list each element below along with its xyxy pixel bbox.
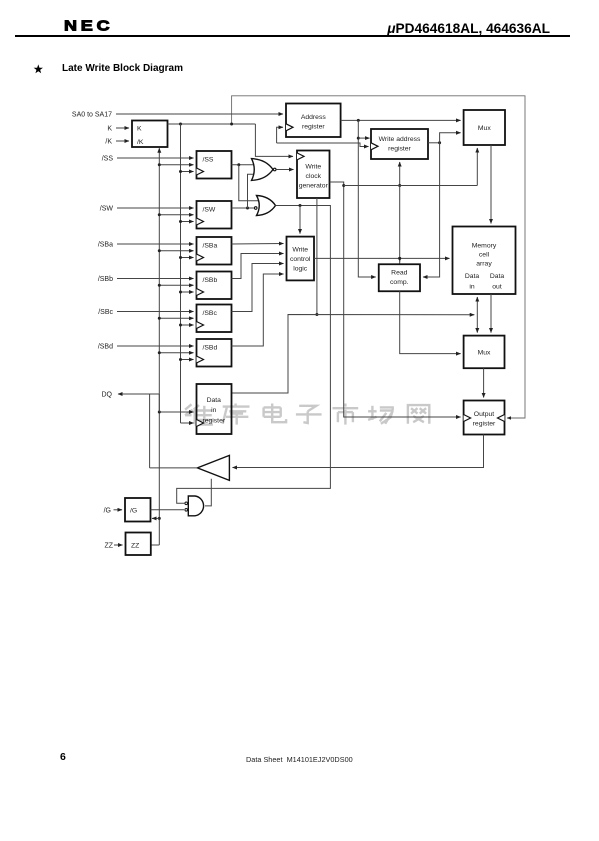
svg-text:register: register — [388, 146, 411, 153]
svg-text:array: array — [476, 261, 492, 268]
svg-text:/SS: /SS — [102, 156, 114, 163]
svg-text:Data: Data — [465, 273, 480, 280]
svg-text:ZZ: ZZ — [104, 543, 113, 550]
svg-text:/K: /K — [137, 139, 144, 146]
svg-text:/SBc: /SBc — [98, 309, 113, 316]
svg-text:/SW: /SW — [203, 206, 216, 213]
svg-text:/SBd: /SBd — [203, 344, 218, 351]
svg-text:comp.: comp. — [390, 279, 409, 286]
svg-text:/SW: /SW — [100, 206, 114, 213]
svg-text:Data: Data — [207, 397, 222, 404]
svg-text:Mux: Mux — [478, 125, 491, 132]
svg-text:DQ: DQ — [102, 392, 113, 399]
svg-text:Memory: Memory — [472, 243, 497, 250]
svg-text:Write address: Write address — [379, 136, 421, 143]
svg-text:Mux: Mux — [478, 350, 491, 357]
svg-text:Write: Write — [305, 164, 321, 171]
svg-text:/G: /G — [130, 508, 137, 515]
svg-text:register: register — [473, 421, 496, 428]
svg-text:cell: cell — [479, 252, 490, 259]
svg-text:/G: /G — [104, 508, 111, 515]
svg-text:control: control — [290, 256, 311, 263]
svg-text:K: K — [107, 126, 112, 133]
svg-text:/SBb: /SBb — [203, 277, 218, 284]
svg-text:ZZ: ZZ — [131, 543, 139, 550]
svg-text:/SBb: /SBb — [98, 276, 113, 283]
svg-text:K: K — [137, 126, 142, 133]
svg-text:Data: Data — [490, 273, 505, 280]
svg-text:clock: clock — [306, 173, 322, 180]
svg-text:register: register — [202, 418, 225, 425]
svg-text:Read: Read — [391, 270, 407, 277]
svg-text:SA0 to SA17: SA0 to SA17 — [72, 112, 112, 119]
svg-text:/SBc: /SBc — [203, 310, 218, 317]
svg-text:out: out — [492, 284, 502, 291]
svg-text:/SS: /SS — [203, 156, 214, 163]
svg-text:in: in — [469, 284, 475, 291]
svg-text:/SBa: /SBa — [98, 242, 113, 249]
svg-text:register: register — [302, 124, 325, 131]
svg-text:in: in — [211, 407, 217, 414]
svg-text:/SBa: /SBa — [203, 242, 218, 249]
svg-text:logic: logic — [293, 266, 308, 273]
svg-text:/K: /K — [105, 139, 112, 146]
svg-text:Write: Write — [292, 247, 308, 254]
svg-text:generator: generator — [299, 183, 329, 190]
svg-text:Output: Output — [474, 411, 495, 418]
svg-text:/SBd: /SBd — [98, 344, 113, 351]
svg-text:Address: Address — [301, 114, 327, 121]
